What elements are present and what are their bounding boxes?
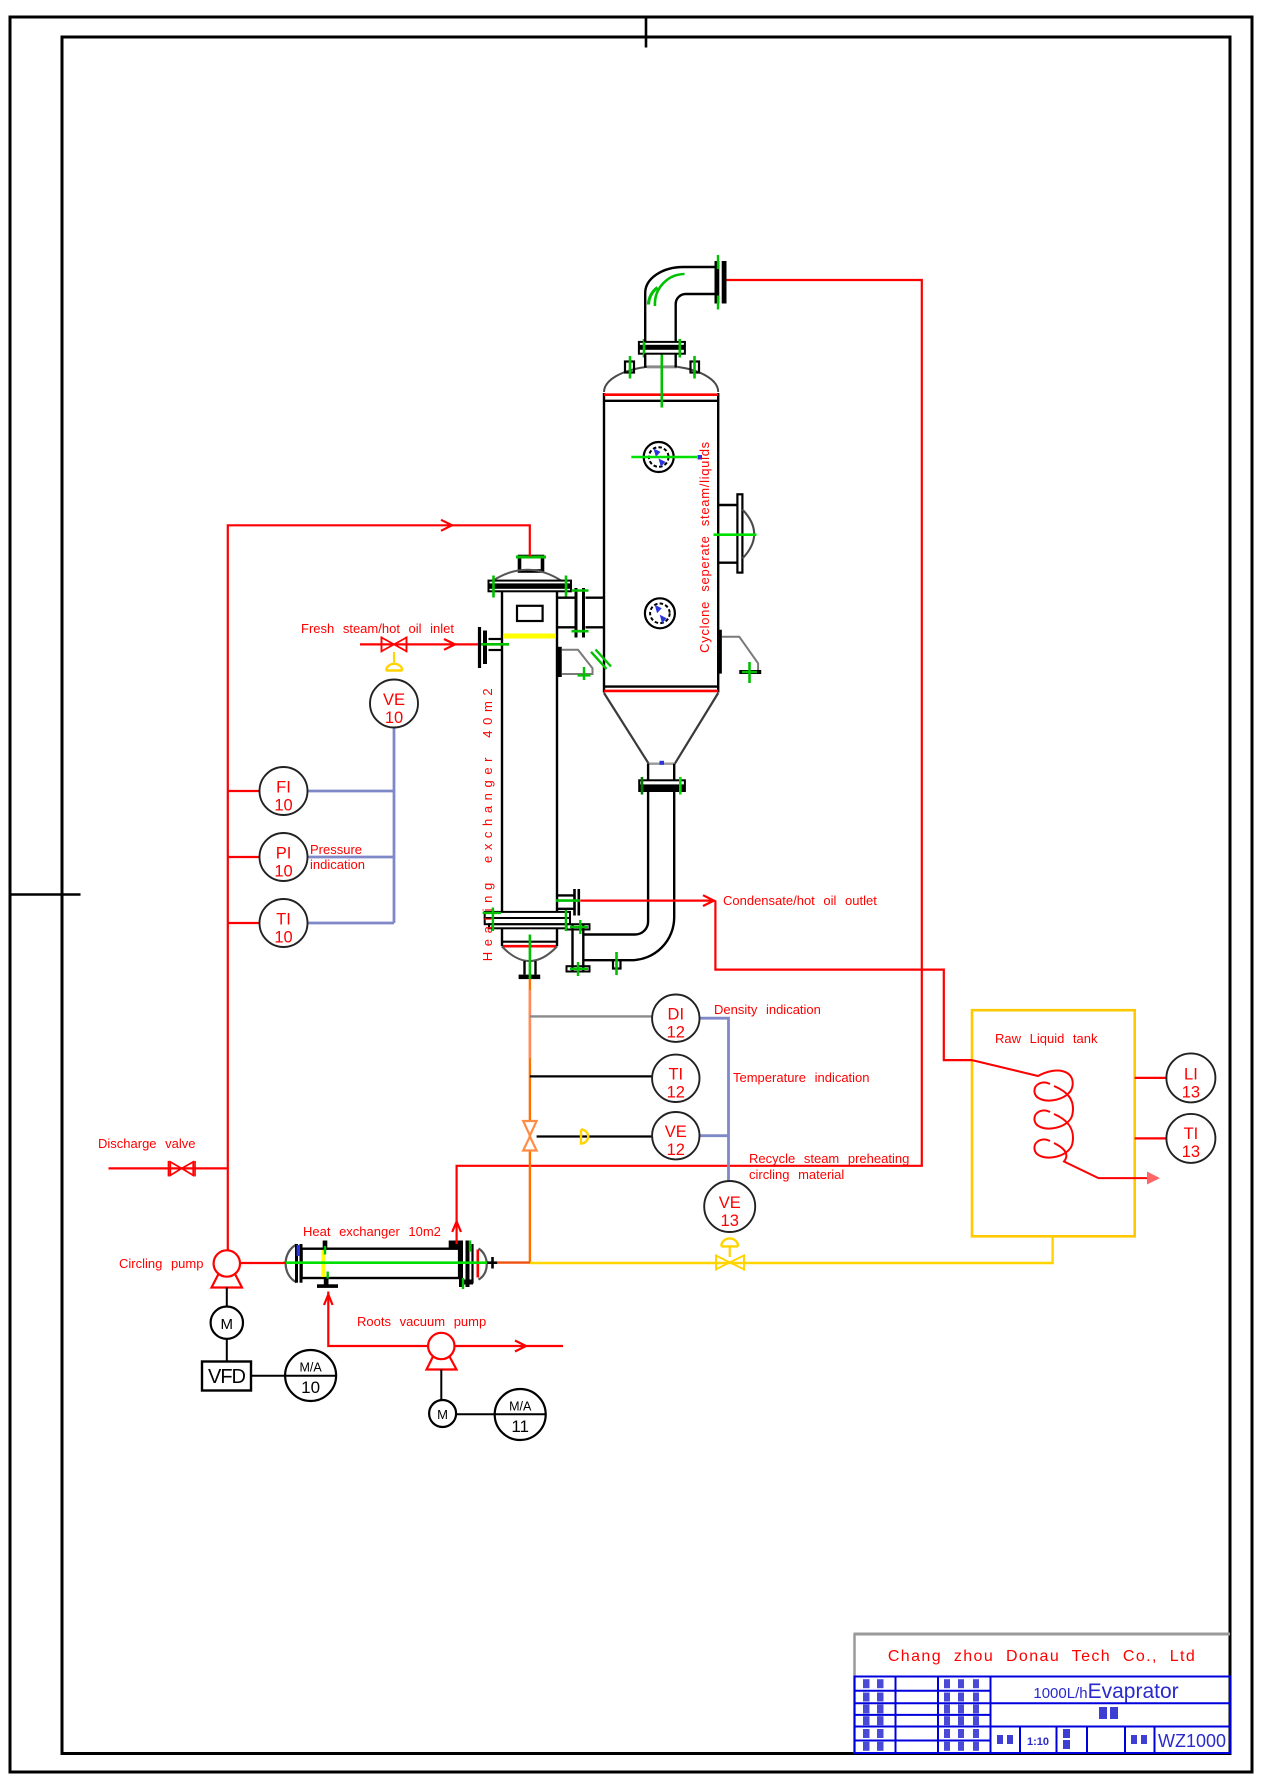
HX10 right head xyxy=(479,1249,487,1280)
dome stub right xyxy=(691,362,700,373)
instrument PI-10 xyxy=(260,833,308,881)
svg-text:Fresh steam/hot oil inlet: Fresh steam/hot oil inlet xyxy=(301,621,454,636)
svg-text:M: M xyxy=(221,1316,234,1333)
title block shadow top xyxy=(854,1633,1231,1636)
svg-text:Temperature indication: Temperature indication xyxy=(733,1070,870,1085)
HX10 saddle support xyxy=(324,1278,329,1285)
separator top nozzle flange xyxy=(639,342,685,354)
tank box xyxy=(972,1010,1135,1236)
downcomer pipe with elbow to left xyxy=(583,791,648,935)
top nozzle neck xyxy=(644,354,646,368)
wire: vapor line from elbow to recycle return (red) xyxy=(457,280,922,1244)
svg-text:12: 12 xyxy=(667,1024,685,1042)
wire: TI-12 connector (black) xyxy=(530,1075,652,1077)
wire: feed riser left (red) xyxy=(228,525,530,1250)
svg-text:10: 10 xyxy=(274,929,292,947)
instrument M/A-11 xyxy=(456,1413,546,1415)
symbol: yellow D on VE-12 line xyxy=(581,1130,588,1144)
svg-text:10: 10 xyxy=(274,797,292,815)
svg-text:11: 11 xyxy=(511,1417,529,1436)
HX10 green centerline xyxy=(283,1261,487,1264)
svg-text:Discharge valve: Discharge valve xyxy=(98,1136,196,1151)
svg-text:DI: DI xyxy=(668,1006,685,1024)
motor M of circling pump xyxy=(226,1288,228,1307)
title block tiny character marks xyxy=(863,1679,979,1751)
separator dome xyxy=(604,367,718,392)
svg-text:VFD: VFD xyxy=(208,1366,246,1388)
separator bottom red line xyxy=(604,690,718,693)
valve: VE-13 with actuator (yellow) xyxy=(729,1247,731,1258)
svg-text:M: M xyxy=(437,1407,448,1422)
instrument VE-10 with slate loop xyxy=(308,728,395,924)
HX40 bottom head xyxy=(501,928,503,946)
instrument FI-10 xyxy=(260,767,308,815)
separator support bracket left with weld hatch xyxy=(716,630,718,674)
svg-text:TI: TI xyxy=(668,1066,683,1084)
HX40 nameplate xyxy=(517,606,543,621)
separator cone xyxy=(604,693,718,764)
cone outlet flange xyxy=(639,780,685,791)
svg-text:VE: VE xyxy=(383,691,405,709)
svg-text:Circling pump: Circling pump xyxy=(119,1256,203,1271)
wire: concentrate drop line (orange) xyxy=(529,979,531,1262)
green flow arcs in elbow xyxy=(655,274,685,306)
wire: discharge valve line (red) xyxy=(109,1167,228,1169)
HX40 bottom flange xyxy=(485,912,570,928)
wire: LI-13 stub xyxy=(1135,1077,1167,1079)
motor M of roots pump xyxy=(440,1370,442,1401)
svg-text:TI: TI xyxy=(1184,1125,1199,1143)
HX40 condensate outlet nozzle xyxy=(557,894,574,896)
svg-text:10: 10 xyxy=(274,863,292,881)
wire: roots vacuum line (red) xyxy=(328,1292,428,1347)
HX40 yellow level band xyxy=(503,634,556,639)
instrument TI-13 xyxy=(1166,1114,1215,1163)
drain stub on downcomer elbow xyxy=(613,960,621,968)
svg-text:M/A: M/A xyxy=(299,1361,322,1375)
svg-text:WZ1000: WZ1000 xyxy=(1158,1731,1226,1751)
svg-text:Heat exchanger 10m2: Heat exchanger 10m2 xyxy=(303,1224,441,1239)
svg-text:Roots vacuum pump: Roots vacuum pump xyxy=(357,1314,486,1329)
svg-text:indication: indication xyxy=(310,857,365,872)
instrument DI-12 xyxy=(652,995,699,1042)
instrument VE-13 xyxy=(704,1181,755,1232)
valve: fresh steam inlet xyxy=(382,637,407,653)
sight glass upper xyxy=(644,442,674,472)
frame tick top center xyxy=(645,17,648,48)
separator top weld black line xyxy=(604,400,718,402)
separator bottom weld black line xyxy=(604,685,718,687)
wire: DI-12 connector (gray) xyxy=(530,1015,652,1017)
elbow end flange xyxy=(715,261,720,304)
svg-text:Density indication: Density indication xyxy=(714,1002,821,1017)
wire: orange-red segment to HX10 xyxy=(497,1261,530,1263)
svg-text:13: 13 xyxy=(1182,1143,1200,1161)
instrument TI-12 xyxy=(652,1055,699,1102)
HX40 shell xyxy=(501,591,503,912)
svg-text:circling material: circling material xyxy=(749,1167,844,1182)
HX10 shell xyxy=(302,1249,460,1278)
HX40 steam inlet flange left xyxy=(478,627,481,668)
instrument TI-10 xyxy=(260,899,308,947)
svg-text:Condensate/hot oil outlet: Condensate/hot oil outlet xyxy=(723,893,877,908)
frame tick left middle xyxy=(10,893,81,896)
svg-text:10: 10 xyxy=(301,1378,320,1397)
HX40 top nozzle xyxy=(520,557,543,572)
separator top weld red line xyxy=(604,393,718,396)
dome stub left xyxy=(625,362,634,373)
HX40 bottom nozzle + blind flange xyxy=(523,961,525,975)
spool piece vertical with flanges xyxy=(567,924,590,971)
svg-text:12: 12 xyxy=(667,1084,685,1102)
separator shell xyxy=(604,393,718,693)
HX40 vapor nozzle to separator xyxy=(557,597,575,599)
separator support bracket right xyxy=(717,630,722,674)
svg-text:Pressure: Pressure xyxy=(310,842,362,857)
svg-text:Recycle steam preheating: Recycle steam preheating xyxy=(749,1151,909,1166)
separator green centerline top xyxy=(660,354,663,408)
svg-text:TI: TI xyxy=(276,911,291,929)
wire: instrument slate loop 12-13 xyxy=(700,1018,729,1181)
HX10 tube sheet red xyxy=(476,1250,479,1278)
svg-text:13: 13 xyxy=(1182,1084,1200,1102)
svg-text:12: 12 xyxy=(667,1141,685,1159)
sight glass lower xyxy=(645,598,675,628)
svg-text:10: 10 xyxy=(385,709,403,727)
wire: condensate outlet (red) xyxy=(580,899,714,901)
HX40 top flange xyxy=(489,581,572,592)
HX10 left head xyxy=(286,1245,297,1283)
pump: roots vacuum pump xyxy=(428,1333,454,1359)
HX10 top-left nozzle xyxy=(323,1241,328,1249)
svg-text:FI: FI xyxy=(276,779,291,797)
valve: VE-12 control valve on drop line (orange outline) xyxy=(523,1121,536,1151)
wire: fresh steam inlet line (red) xyxy=(360,643,478,645)
svg-text:LI: LI xyxy=(1184,1066,1198,1084)
arrow on top feed line xyxy=(441,520,452,531)
actuator: fresh steam valve (yellow) xyxy=(393,652,395,663)
pump: circling pump xyxy=(240,1262,286,1264)
HX10 yellow band xyxy=(321,1250,325,1277)
svg-text:Heating exchanger 40m2: Heating exchanger 40m2 xyxy=(480,683,495,961)
vapor outlet elbow xyxy=(645,267,714,342)
VFD box xyxy=(226,1339,228,1362)
instrument LI-13 xyxy=(1166,1053,1215,1102)
wire: VE-12 connector (black) xyxy=(537,1135,652,1137)
svg-text:Chang zhou Donau Tech Co., Ltd: Chang zhou Donau Tech Co., Ltd xyxy=(888,1648,1196,1665)
svg-text:Cyclone seperate steam/liquids: Cyclone seperate steam/liquids xyxy=(697,441,712,653)
cone outlet neck xyxy=(647,764,649,781)
svg-text:M/A: M/A xyxy=(509,1400,532,1414)
svg-text:13: 13 xyxy=(721,1212,739,1230)
tank heating coil xyxy=(972,1060,1150,1178)
HX40 top dome xyxy=(493,570,561,581)
instrument M/A-10 xyxy=(251,1375,336,1377)
manhole nozzle right xyxy=(718,504,737,506)
svg-text:PI: PI xyxy=(276,845,292,863)
HX10 right end cross mark xyxy=(487,1261,498,1264)
svg-text:Raw Liquid tank: Raw Liquid tank xyxy=(995,1031,1098,1046)
arrow up into HX10 nozzle xyxy=(452,1222,461,1233)
HX10 right flange xyxy=(449,1241,463,1249)
svg-text:VE: VE xyxy=(719,1194,741,1212)
wire: yellow transfer line xyxy=(530,1236,1053,1263)
svg-text:1:10: 1:10 xyxy=(1027,1736,1049,1748)
svg-text:VE: VE xyxy=(665,1123,687,1141)
title block blue table xyxy=(855,1677,1231,1754)
instrument VE-12 xyxy=(652,1112,699,1159)
HX10 left flange xyxy=(295,1244,298,1283)
wire: TI-13 stub xyxy=(1135,1137,1167,1139)
